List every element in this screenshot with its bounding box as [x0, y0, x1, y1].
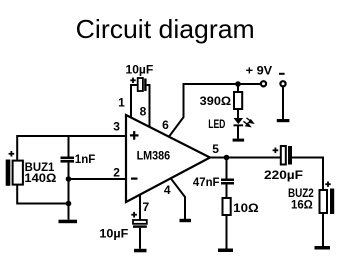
buzzer BUZ1 body	[13, 161, 23, 185]
wire output pin5	[210, 157, 281, 159]
BUZ2 plus sign	[325, 182, 330, 187]
node junction dot A	[66, 176, 72, 182]
wire pin8 riser	[147, 85, 150, 127]
buzzer BUZ2 solid plate	[330, 189, 334, 215]
terminal minus circle	[280, 81, 285, 86]
svg-text:10µF: 10µF	[126, 63, 154, 77]
wire BUZ1 bottom	[17, 185, 68, 204]
svg-text:LED: LED	[208, 117, 225, 131]
BUZ1 plus sign	[9, 151, 15, 157]
svg-text:5: 5	[212, 142, 219, 156]
wire LED to ground	[237, 126, 239, 139]
LED D1 triangle	[234, 118, 244, 124]
capacitor C5 10uF hollow plate	[133, 220, 147, 224]
wire node B to ground	[68, 204, 70, 220]
ground bar pin4	[180, 219, 192, 222]
node junction dot supply	[235, 81, 241, 87]
wire node A down	[68, 179, 70, 204]
capacitor C1 1nF drop wire	[68, 136, 70, 157]
label minus	[279, 73, 285, 75]
wire output node to 47nF	[226, 158, 228, 179]
wire BUZ2 to ground	[322, 213, 324, 246]
node junction dot B	[66, 201, 72, 207]
wire supply node to resistor	[237, 84, 239, 92]
capacitor C4 220uF solid plate	[288, 146, 292, 165]
wire 10ohm to ground	[226, 215, 228, 249]
svg-text:10Ω: 10Ω	[233, 201, 259, 215]
ground bar left	[59, 220, 78, 224]
ground bar pin7	[134, 249, 147, 253]
svg-text:6: 6	[162, 118, 169, 132]
wire pin4	[171, 179, 185, 219]
svg-text:220µF: 220µF	[264, 168, 303, 182]
svg-text:8: 8	[140, 104, 147, 118]
wire minus terminal to ground	[282, 87, 284, 119]
buzzer BUZ1 solid plate	[6, 160, 11, 186]
svg-text:1nF: 1nF	[75, 152, 96, 166]
svg-text:140Ω: 140Ω	[24, 171, 56, 185]
svg-text:+ 9V: + 9V	[246, 64, 273, 78]
ground bar minus terminal	[277, 119, 290, 122]
LED D1 cathode bar	[234, 124, 244, 126]
C2 plus sign	[130, 78, 135, 83]
capacitor C2 10uF top solid plate	[144, 79, 146, 92]
op-amp U1 LM386 triangle	[126, 115, 210, 202]
wire pin6 to supply	[169, 84, 260, 137]
op-amp plus input mark	[130, 131, 139, 140]
capacitor C4 220uF hollow plate	[281, 146, 286, 165]
svg-text:Circuit diagram: Circuit diagram	[76, 14, 255, 44]
buzzer BUZ2 body	[320, 190, 328, 213]
capacitor C1 1nF plates	[61, 157, 75, 160]
ground bar LED	[233, 139, 245, 142]
svg-text:16Ω: 16Ω	[291, 198, 313, 212]
capacitor C3 47nF plates	[221, 179, 234, 182]
wire C4 to BUZ2	[292, 158, 323, 191]
terminal +9V circle	[261, 81, 266, 86]
LED light arrows	[243, 118, 253, 127]
wire resistor to LED	[237, 109, 239, 118]
svg-text:7: 7	[142, 200, 149, 214]
svg-text:47nF: 47nF	[193, 175, 220, 189]
svg-text:3: 3	[113, 120, 120, 134]
wire 47nF to 10ohm	[226, 185, 228, 199]
C5 plus sign	[131, 212, 137, 218]
wire C5 to ground	[139, 228, 141, 249]
wire pin3 input top-left horizontal	[17, 136, 126, 161]
ground bar 10ohm	[218, 249, 233, 253]
C4 plus sign	[273, 148, 279, 154]
svg-text:1: 1	[118, 96, 125, 110]
svg-text:390Ω: 390Ω	[200, 94, 232, 108]
resistor R2 10ohm	[223, 198, 231, 215]
wire pin2 horizontal	[69, 178, 127, 180]
svg-text:LM386: LM386	[137, 148, 171, 162]
op-amp minus input mark	[131, 178, 138, 180]
capacitor C5 10uF solid plate	[133, 225, 147, 227]
wire pin1 riser	[131, 85, 138, 118]
wire C1 to node	[68, 163, 70, 179]
capacitor C2 10uF top hollow plate	[138, 78, 143, 91]
resistor R1 390ohm	[234, 92, 242, 109]
svg-text:2: 2	[113, 165, 120, 179]
wire pin7	[139, 195, 141, 220]
svg-text:4: 4	[164, 183, 171, 197]
svg-text:10µF: 10µF	[99, 227, 128, 241]
node junction dot output	[224, 155, 230, 161]
ground bar BUZ2	[315, 246, 331, 250]
